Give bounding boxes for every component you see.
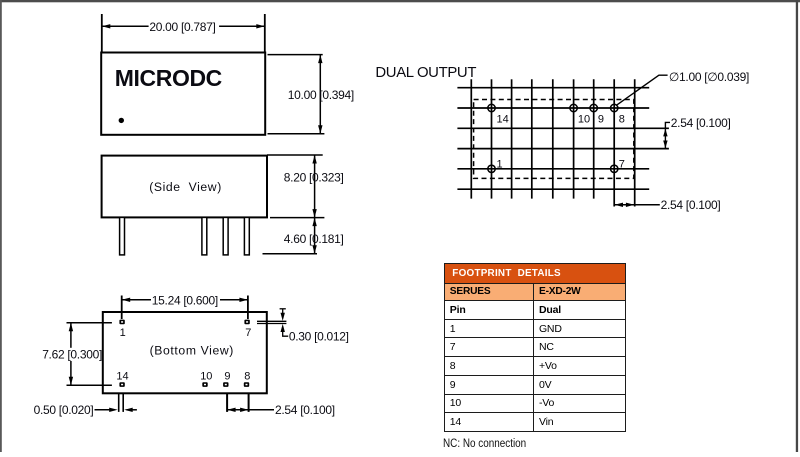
hole pin 1 (488, 165, 495, 172)
svg-text:MICRODC: MICRODC (115, 65, 222, 91)
dim 2.54 bottom-view dimension line (227, 409, 249, 411)
svg-text:8: 8 (244, 371, 250, 383)
dim 7.62 label (41, 348, 100, 361)
side view outline (102, 156, 267, 218)
pin 7 side profile lines (257, 320, 286, 322)
dim 0.50 dimension lines (95, 409, 116, 411)
svg-text:8.20 [0.323]: 8.20 [0.323] (284, 170, 344, 184)
svg-text:2.54 [0.100]: 2.54 [0.100] (671, 116, 731, 130)
pad pin 14 (119, 382, 124, 387)
svg-text:7: 7 (245, 327, 251, 339)
hole pin 9 (590, 104, 597, 111)
dim 0.30 lower arrow and leader (281, 324, 285, 332)
module body dashed outline (474, 100, 634, 179)
dim 8.20 top witness line (267, 154, 323, 156)
svg-text:9: 9 (598, 114, 604, 126)
pin 9 profile line (226, 393, 228, 412)
pin 8 profile line (248, 393, 250, 412)
svg-text:2.54 [0.100]: 2.54 [0.100] (275, 403, 335, 417)
svg-text:8: 8 (619, 114, 625, 126)
dim 2.54 row-pitch leader (665, 122, 670, 148)
dim 4.60 dimension line (314, 218, 316, 254)
pad pin 10 (202, 382, 207, 387)
pin1 index dot (119, 118, 124, 123)
dim 7.62 bottom witness line (67, 384, 112, 386)
dim 10.00 dimension line (319, 55, 321, 134)
side view pin 10 (202, 217, 207, 255)
dim 20.00 right witness line (264, 14, 266, 52)
svg-text:10.00 [0.394]: 10.00 [0.394] (288, 88, 354, 102)
dim 20.00 dimension line (102, 25, 265, 27)
hole pin 7 (611, 165, 618, 172)
svg-text:1: 1 (120, 327, 126, 339)
svg-text:9: 9 (224, 371, 230, 383)
svg-text:10: 10 (578, 114, 590, 126)
pad pin 7 (244, 320, 249, 325)
hole pin 10 (570, 104, 577, 111)
dim 20.00 label (149, 20, 220, 33)
svg-text:14: 14 (116, 371, 128, 383)
svg-text:1: 1 (497, 158, 503, 170)
page left border (0, 0, 2, 452)
dim 7.62 top witness line (67, 322, 112, 324)
dim 20.00 left witness line (101, 14, 103, 52)
bottom view outline (103, 312, 267, 393)
hole pin 8 (611, 104, 618, 111)
svg-text:10: 10 (200, 371, 212, 383)
dim 0.30 upper arrow (280, 308, 286, 310)
dim 8.20 dimension line (314, 155, 316, 218)
dim 2.54 column-pitch dimension line (614, 204, 660, 206)
svg-text:0.50 [0.020]: 0.50 [0.020] (34, 403, 94, 417)
dim 4.60 bottom witness line (263, 253, 318, 255)
svg-text:(Side View): (Side View) (149, 180, 222, 194)
svg-text:0.30 [0.012]: 0.30 [0.012] (289, 330, 349, 344)
svg-text:4.60 [0.181]: 4.60 [0.181] (284, 232, 344, 246)
dim 15.24 dimension line (122, 299, 248, 301)
hole diameter leader line (616, 75, 668, 105)
svg-text:7: 7 (619, 158, 625, 170)
pad pin 1 (119, 320, 124, 325)
svg-text:14: 14 (497, 114, 509, 126)
dim 15.24 left witness line (121, 296, 123, 320)
dim 8.20 bottom witness line (270, 217, 324, 219)
page top border (0, 0, 800, 2)
pin 14 side profile lines (118, 393, 120, 412)
svg-text:2.54 [0.100]: 2.54 [0.100] (661, 198, 721, 212)
hole pin 14 (488, 104, 495, 111)
side view pin 8/7 (244, 217, 249, 255)
svg-text:20.00 [0.787]: 20.00 [0.787] (149, 20, 215, 34)
svg-text:∅1.00 [∅0.039]: ∅1.00 [∅0.039] (669, 70, 749, 84)
grid vertical lines (471, 79, 634, 206)
top view outline (101, 53, 265, 135)
side view pin 9 (223, 217, 228, 255)
NC note (443, 436, 526, 450)
svg-text:7.62 [0.300]: 7.62 [0.300] (42, 348, 102, 362)
pad pin 9 (223, 382, 228, 387)
dim 15.24 label (151, 294, 220, 307)
svg-text:DUAL OUTPUT: DUAL OUTPUT (375, 65, 476, 81)
pad pin 8 (244, 382, 249, 387)
side view pin 1/14 (120, 217, 125, 255)
dim 10.00 top witness line (268, 54, 323, 56)
dim 10.00 bottom witness line (268, 133, 325, 135)
svg-text:15.24 [0.600]: 15.24 [0.600] (152, 293, 218, 307)
dim 15.24 right witness line (247, 296, 249, 320)
dim 7.62 dimension line (70, 323, 72, 385)
svg-text:(Bottom View): (Bottom View) (150, 344, 234, 358)
grid horizontal lines (457, 88, 669, 190)
page right border (796, 0, 798, 452)
footprint details table (444, 263, 627, 432)
